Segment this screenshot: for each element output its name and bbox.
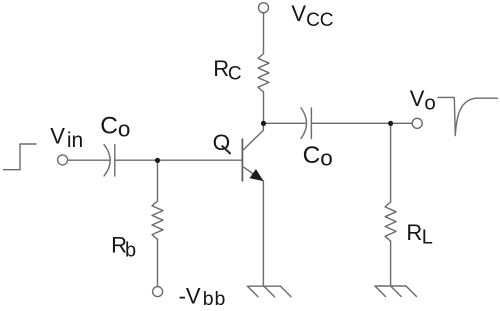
- wire collector node to output capacitor: [264, 122, 306, 124]
- wire capacitor to base node: [115, 159, 243, 161]
- svg-text:RL: RL: [406, 220, 432, 248]
- svg-text:Co: Co: [303, 142, 333, 170]
- input step waveform symbol: [4, 144, 36, 170]
- svg-text:RC: RC: [213, 56, 241, 85]
- resistor RL: [385, 202, 396, 241]
- wire Vcc to Rc: [263, 13, 265, 53]
- ground (emitter): [248, 286, 292, 297]
- terminal Vin: [58, 155, 68, 165]
- transistor Q collector lead: [242, 123, 263, 150]
- wire output capacitor to Vo terminal: [311, 122, 412, 124]
- svg-text:VCC: VCC: [291, 1, 333, 31]
- wire node B down to Rb: [157, 160, 159, 201]
- capacitor C_o input curved plate: [104, 145, 110, 176]
- node dot at output: [388, 121, 393, 126]
- transistor Q emitter arrow: [250, 169, 263, 180]
- node dot at base: [155, 158, 160, 163]
- ground (RL): [375, 286, 417, 297]
- transistor Q base bar: [241, 139, 243, 181]
- transistor Q emitter lead: [242, 166, 263, 181]
- terminal -Vbb: [153, 287, 163, 297]
- wire Vin to capacitor Co input: [68, 159, 109, 161]
- wire Rb to -Vbb terminal: [157, 239, 159, 286]
- svg-text:Co: Co: [100, 113, 130, 142]
- output waveform (differentiated step): [438, 97, 497, 135]
- svg-text:-Vbb: -Vbb: [179, 284, 226, 311]
- capacitor C_o input straight plate: [114, 145, 116, 176]
- wire output node down to RL: [390, 123, 392, 202]
- wire RL to ground: [390, 241, 392, 286]
- wire emitter down to ground: [262, 181, 264, 286]
- node dot at collector: [261, 121, 266, 126]
- resistor Rc: [258, 54, 269, 92]
- resistor Rb: [152, 201, 163, 239]
- svg-text:Vo: Vo: [410, 86, 436, 114]
- svg-text:Vin: Vin: [50, 124, 83, 152]
- terminal Vcc: [259, 3, 269, 13]
- capacitor C_o output curved plate: [301, 108, 307, 139]
- terminal Vo: [412, 118, 422, 128]
- svg-text:Rb: Rb: [111, 232, 136, 261]
- wire Rc to collector node: [263, 92, 265, 123]
- capacitor C_o output straight plate: [310, 108, 312, 139]
